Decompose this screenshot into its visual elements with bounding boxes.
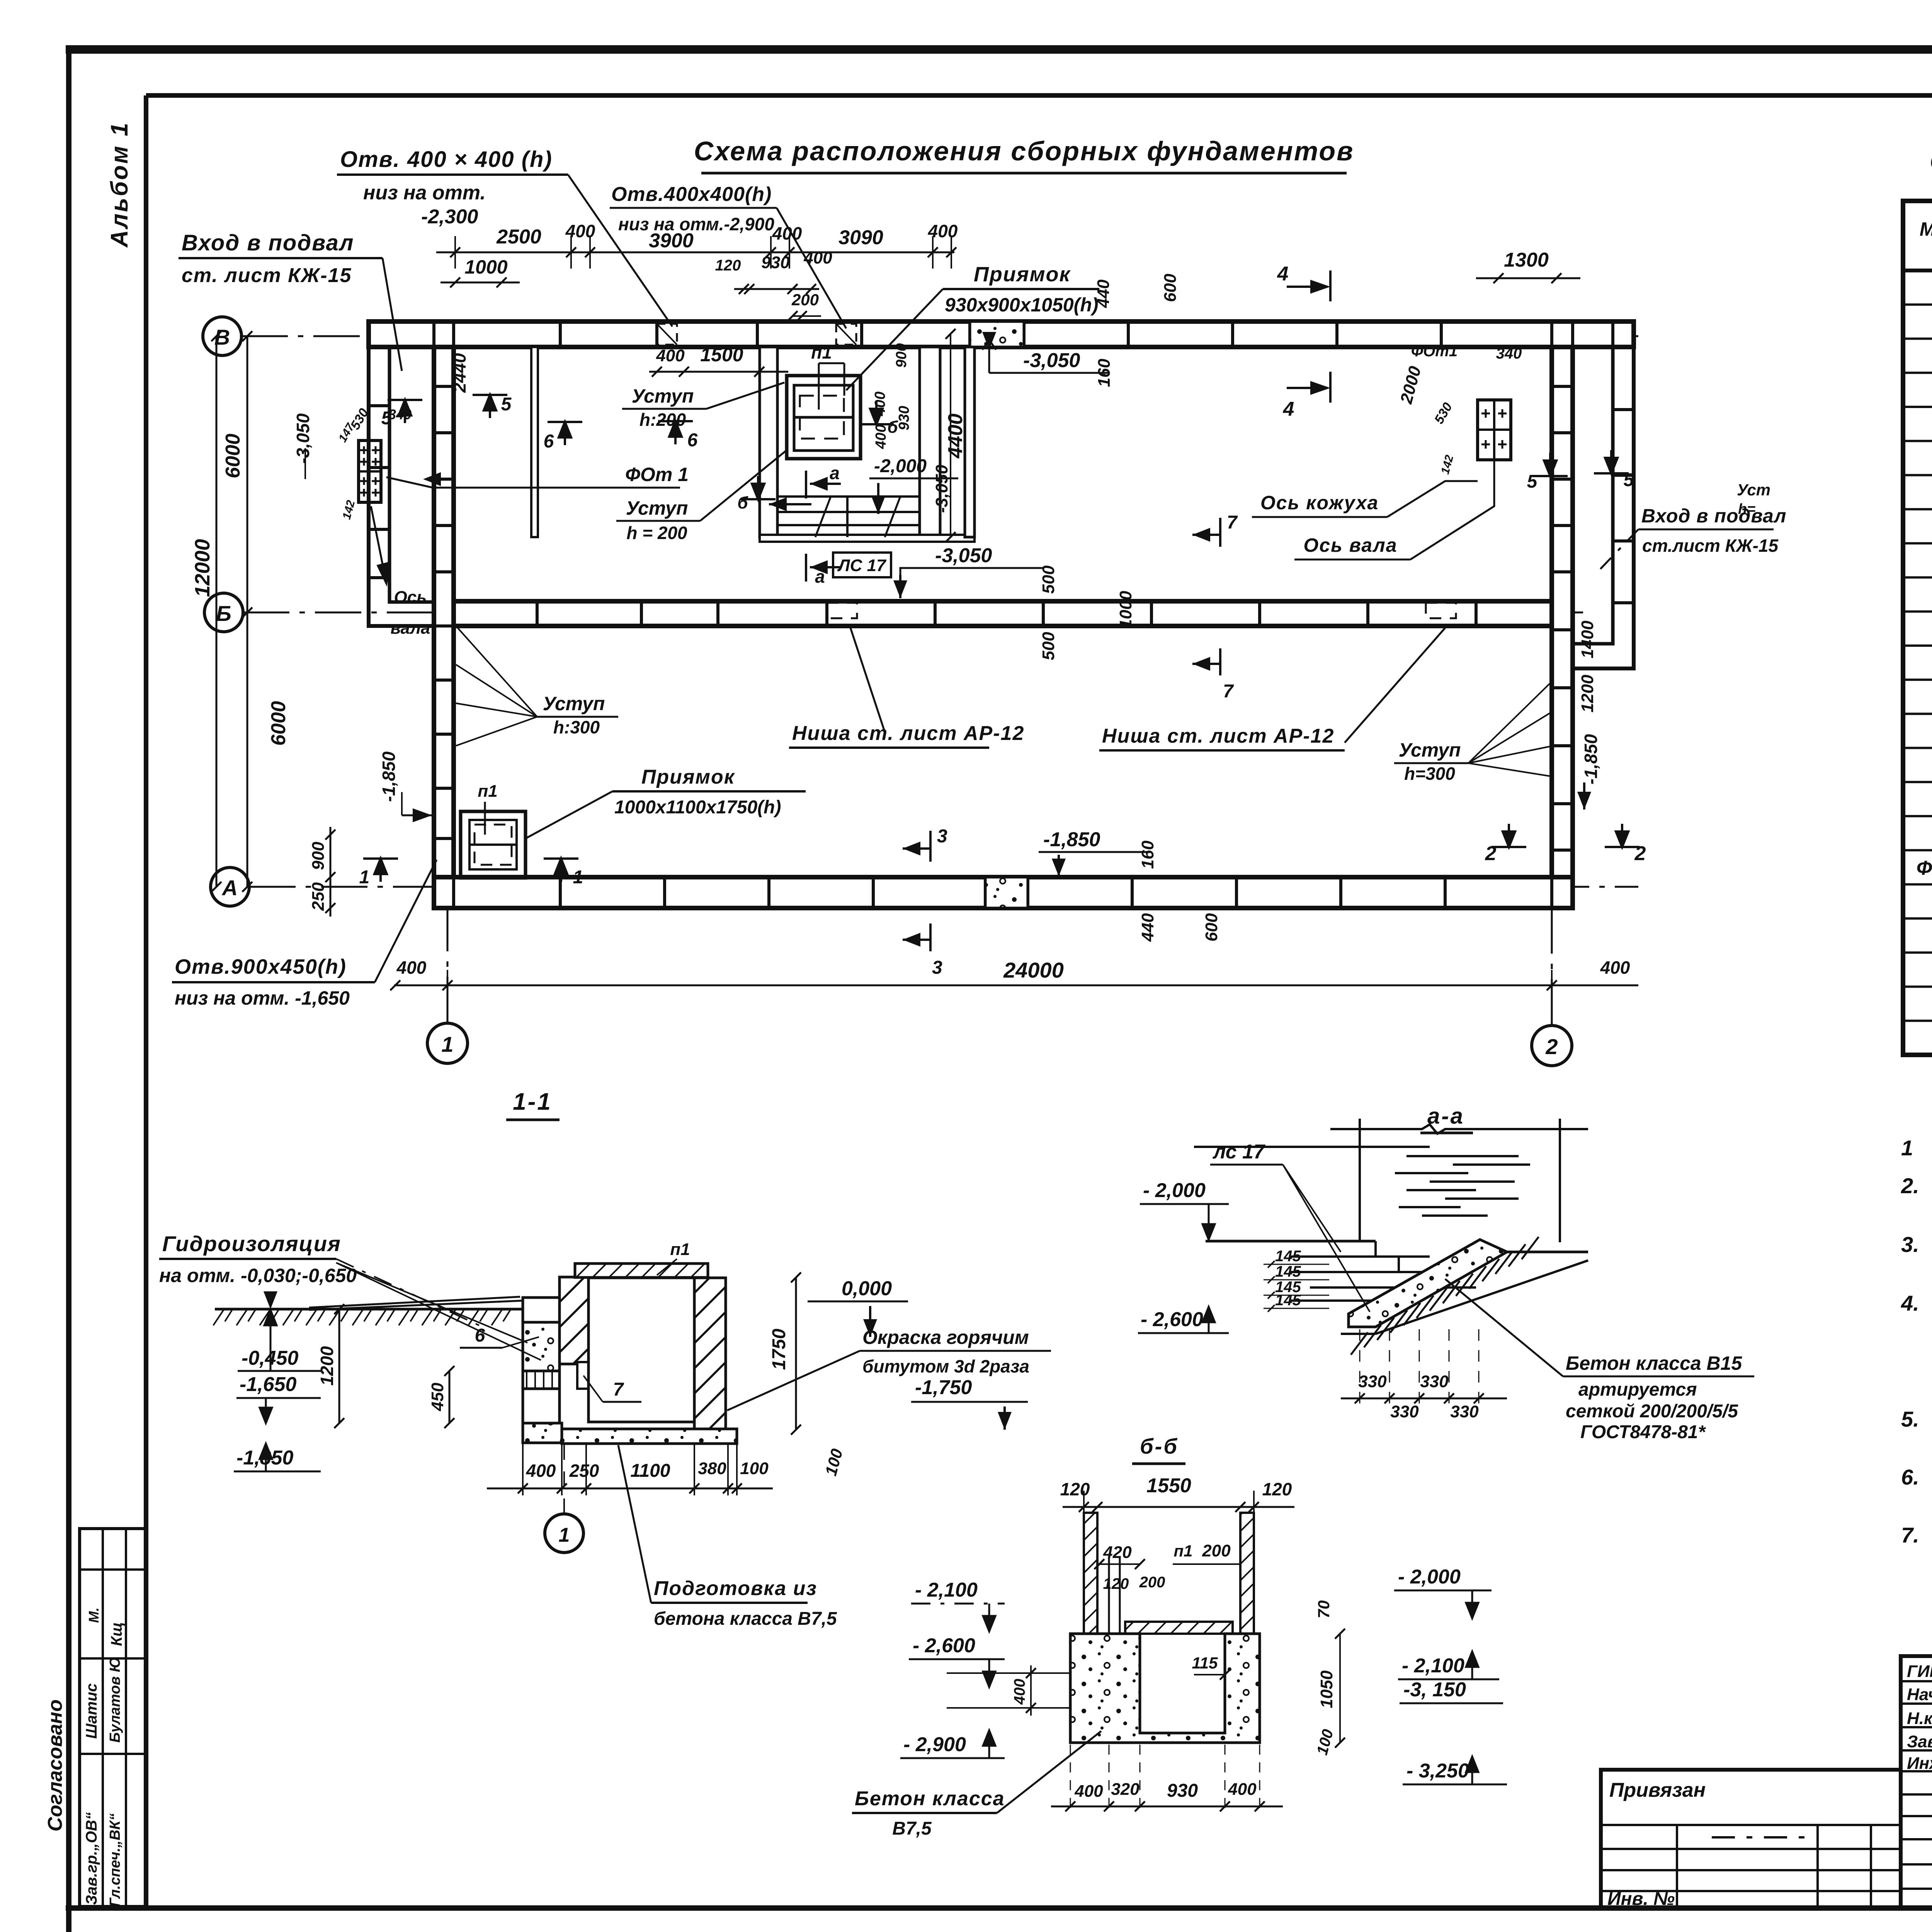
svg-text:420: 420 bbox=[1103, 1543, 1132, 1562]
sheet top edge bbox=[66, 45, 1932, 54]
svg-text:380: 380 bbox=[698, 1459, 726, 1478]
svg-text:п1: п1 bbox=[811, 342, 832, 362]
section 1-1 hatched pit wall right bbox=[694, 1278, 726, 1430]
section b-b levels right bbox=[1314, 1566, 1507, 1784]
svg-text:330: 330 bbox=[1390, 1402, 1419, 1421]
svg-text:сеткой 200/200/5/5: сеткой 200/200/5/5 bbox=[1566, 1401, 1738, 1422]
svg-text:Отв.900х450(h): Отв.900х450(h) bbox=[175, 955, 347, 978]
svg-text:1: 1 bbox=[441, 1032, 453, 1056]
svg-text:120: 120 bbox=[1103, 1575, 1129, 1592]
svg-text:В7,5: В7,5 bbox=[892, 1818, 932, 1839]
svg-text:лс 17: лс 17 bbox=[1212, 1141, 1265, 1163]
svg-text:- 2,600: - 2,600 bbox=[1141, 1308, 1203, 1331]
svg-text:h=: h= bbox=[1738, 501, 1755, 517]
svg-text:0,000: 0,000 bbox=[842, 1277, 892, 1300]
svg-text:- 2,100: - 2,100 bbox=[1402, 1655, 1464, 1677]
svg-text:1750: 1750 bbox=[769, 1328, 789, 1370]
approval stamp texts bbox=[44, 1607, 125, 1907]
svg-text:низ на отт.: низ на отт. bbox=[363, 182, 486, 204]
grid 1 line bbox=[447, 321, 449, 1023]
section a-a title bbox=[1420, 1104, 1473, 1133]
level -1,850 left rotated bbox=[379, 751, 432, 822]
svg-text:1050: 1050 bbox=[1317, 1670, 1336, 1708]
title block signature texts bbox=[1907, 1661, 1932, 1773]
svg-text:- 2,000: - 2,000 bbox=[1143, 1179, 1206, 1202]
section mark 5 pair left bbox=[381, 391, 512, 429]
section mark 6 pair bbox=[544, 417, 698, 452]
stairwell left wall bbox=[760, 347, 777, 537]
svg-text:5: 5 bbox=[1527, 471, 1538, 492]
right exterior wall bbox=[1552, 347, 1573, 877]
section a-a water hatch bbox=[1194, 1147, 1530, 1216]
notes bbox=[1901, 1135, 1932, 1578]
svg-text:Н.контр: Н.контр bbox=[1907, 1709, 1932, 1728]
svg-text:а-а: а-а bbox=[1427, 1104, 1464, 1129]
stairs in plan bbox=[777, 497, 920, 537]
svg-text:на отм. -0,030;-0,650: на отм. -0,030;-0,650 bbox=[159, 1265, 357, 1286]
svg-text:низ на отм.-2,900: низ на отм.-2,900 bbox=[618, 214, 774, 234]
dimension 900 250 left bbox=[309, 827, 335, 917]
section b-b dims 420 p1 200 bbox=[1094, 1541, 1240, 1592]
section 1-1 level -1,650 bbox=[236, 1373, 321, 1423]
svg-text:А: А bbox=[221, 876, 238, 900]
dimension row pit top bbox=[715, 248, 833, 321]
interior wall left room bbox=[531, 347, 538, 537]
svg-text:400: 400 bbox=[1228, 1780, 1257, 1799]
label priyamok top bbox=[846, 263, 1099, 390]
svg-text:330: 330 bbox=[1358, 1372, 1387, 1391]
section a-a level -2,600 bbox=[1138, 1307, 1229, 1333]
rotated dims pit right bbox=[872, 329, 967, 542]
svg-text:250: 250 bbox=[569, 1461, 599, 1481]
svg-text:500: 500 bbox=[1039, 632, 1058, 660]
axis B line bbox=[241, 335, 1638, 337]
svg-text:а: а bbox=[830, 463, 840, 483]
svg-text:Уступ: Уступ bbox=[632, 385, 694, 407]
svg-text:б: б bbox=[887, 418, 898, 437]
svg-text:2500: 2500 bbox=[496, 226, 541, 248]
svg-text:330: 330 bbox=[1420, 1372, 1449, 1391]
svg-text:160: 160 bbox=[1138, 840, 1157, 869]
svg-text:п1: п1 bbox=[1173, 1542, 1192, 1560]
svg-text:930: 930 bbox=[1167, 1781, 1198, 1801]
svg-text:-1,650: -1,650 bbox=[240, 1373, 297, 1396]
svg-text:Ось кожуха: Ось кожуха bbox=[1260, 492, 1379, 514]
section 1-1 label hydroizol bbox=[159, 1231, 541, 1360]
label nisha right bbox=[1099, 628, 1445, 750]
section 1-1 dim 100 right bbox=[821, 1447, 846, 1478]
specification table grid bbox=[1903, 201, 1932, 1055]
left exterior wall bbox=[434, 347, 454, 877]
svg-text:п1: п1 bbox=[478, 782, 497, 801]
section a-a 145 labels bbox=[1264, 1248, 1329, 1312]
svg-text:Инв. №: Инв. № bbox=[1607, 1889, 1675, 1909]
section b-b dim 400 left bbox=[947, 1665, 1070, 1716]
main drawing title bbox=[694, 136, 1354, 173]
label otv 400x400 -2300 bbox=[337, 147, 672, 327]
svg-text:Вход в подвал: Вход в подвал bbox=[1641, 505, 1787, 527]
middle wall axis Bm bbox=[454, 601, 1552, 626]
right entrance porch bbox=[1573, 347, 1634, 668]
svg-text:6000: 6000 bbox=[222, 434, 244, 478]
svg-text:12000: 12000 bbox=[191, 539, 214, 597]
svg-text:930: 930 bbox=[896, 406, 912, 430]
label nisha left bbox=[789, 627, 1024, 748]
svg-text:-3,050: -3,050 bbox=[935, 544, 992, 567]
svg-text:1300: 1300 bbox=[1504, 249, 1549, 271]
svg-text:h:300: h:300 bbox=[553, 717, 600, 737]
dimension 1300 right top bbox=[1476, 249, 1580, 283]
pit P1 bottom left bbox=[461, 782, 526, 878]
section 1-1 label 6 bbox=[460, 1325, 539, 1348]
svg-text:4: 4 bbox=[1283, 398, 1294, 420]
svg-text:24000: 24000 bbox=[1003, 958, 1064, 982]
label os vala left bbox=[371, 506, 430, 638]
svg-text:400: 400 bbox=[656, 346, 685, 365]
section 1-1 label 7 bbox=[583, 1376, 641, 1402]
svg-text:М.: М. bbox=[86, 1607, 102, 1623]
section a-a label LS17 bbox=[1210, 1141, 1370, 1312]
approval stamp table bbox=[80, 1529, 146, 1906]
svg-text:б: б bbox=[737, 493, 748, 512]
grid 2 circle bbox=[1532, 1026, 1572, 1066]
axis Bm line bbox=[243, 612, 1584, 614]
svg-text:200: 200 bbox=[1139, 1574, 1165, 1591]
specification title bbox=[1930, 147, 1932, 175]
svg-text:-1,750: -1,750 bbox=[915, 1376, 972, 1399]
svg-text:3: 3 bbox=[937, 826, 947, 847]
bottom exterior wall bbox=[434, 877, 1573, 908]
section mark b pair bbox=[737, 401, 898, 512]
svg-text:340: 340 bbox=[1496, 345, 1522, 362]
section b-b level -2,600 left bbox=[909, 1634, 1005, 1687]
svg-text:- 2,900: - 2,900 bbox=[903, 1733, 966, 1756]
svg-text:4.: 4. bbox=[1901, 1291, 1919, 1315]
svg-text:Инж.: Инж. bbox=[1907, 1754, 1932, 1773]
svg-text:Приямок: Приямок bbox=[974, 263, 1071, 286]
album label bbox=[106, 121, 133, 248]
svg-text:1000: 1000 bbox=[464, 256, 507, 278]
svg-text:1550: 1550 bbox=[1146, 1475, 1191, 1497]
svg-text:930х900х1050(h): 930х900х1050(h) bbox=[945, 294, 1099, 316]
label otv 400x400 -2900 bbox=[610, 183, 846, 328]
svg-text:Уст: Уст bbox=[1737, 481, 1770, 499]
svg-text:200: 200 bbox=[1202, 1541, 1231, 1560]
svg-text:Кщ: Кщ bbox=[108, 1622, 125, 1646]
svg-text:Б: Б bbox=[216, 601, 231, 626]
label ustup h300 right bbox=[1394, 680, 1553, 784]
svg-text:1: 1 bbox=[573, 867, 583, 888]
svg-text:ЛС 17: ЛС 17 bbox=[837, 556, 887, 575]
svg-text:1200: 1200 bbox=[317, 1346, 337, 1386]
svg-text:- 2,600: - 2,600 bbox=[913, 1634, 975, 1657]
svg-text:Окраска горячим: Окраска горячим bbox=[862, 1327, 1029, 1348]
svg-text:5: 5 bbox=[501, 394, 512, 415]
section a-a stair slab bbox=[1349, 1240, 1588, 1327]
left entrance porch bbox=[369, 347, 434, 626]
svg-text:h:200: h:200 bbox=[639, 410, 686, 430]
svg-text:-1,850: -1,850 bbox=[1581, 734, 1601, 784]
section 1-1 ground line bbox=[213, 1297, 523, 1325]
svg-text:400: 400 bbox=[396, 957, 427, 978]
section 1-1 dim 1200 bbox=[317, 1304, 344, 1428]
svg-text:1000: 1000 bbox=[1116, 591, 1135, 629]
section b-b dim 115 bbox=[1192, 1654, 1230, 1680]
svg-text:-1,850: -1,850 bbox=[379, 751, 399, 802]
section mark 5 pair right bbox=[1527, 450, 1634, 492]
label os kozhuha bbox=[1252, 481, 1478, 517]
svg-text:Спецификация к схеме располо: Спецификация к схеме расположения фундам… bbox=[1930, 147, 1932, 175]
svg-text:100: 100 bbox=[740, 1459, 769, 1478]
stairwell bottom wall bbox=[760, 535, 975, 542]
svg-text:400: 400 bbox=[1074, 1782, 1103, 1801]
section 1-1 pit interior bbox=[588, 1278, 694, 1422]
svg-text:Уступ: Уступ bbox=[626, 497, 688, 519]
pit label p1 bbox=[811, 342, 844, 410]
svg-text:-3,050: -3,050 bbox=[1023, 349, 1080, 372]
level -3,050 stairs bbox=[893, 544, 1043, 598]
stair label LS17 plan bbox=[833, 553, 891, 577]
svg-text:ФОт 1: ФОт 1 bbox=[625, 464, 689, 485]
section a-a walls bbox=[1330, 1119, 1588, 1242]
section mark 2 pair bbox=[1485, 824, 1646, 865]
section 1-1 cover slab P1 bbox=[575, 1240, 708, 1277]
monolith patch top wall bbox=[970, 321, 1024, 347]
svg-text:600: 600 bbox=[1161, 274, 1180, 302]
svg-text:200: 200 bbox=[791, 291, 819, 309]
svg-text:400: 400 bbox=[928, 221, 958, 241]
svg-text:70: 70 bbox=[1315, 1600, 1333, 1619]
rotated dims cluster bottom wall bbox=[1138, 840, 1221, 942]
svg-text:ст.лист КЖ-15: ст.лист КЖ-15 bbox=[1642, 536, 1779, 556]
svg-text:h=300: h=300 bbox=[1404, 764, 1455, 784]
section 1-1 label podgotovka bbox=[618, 1445, 837, 1629]
section 1-1 dim 450 bbox=[428, 1366, 454, 1428]
svg-text:6.: 6. bbox=[1901, 1465, 1919, 1489]
svg-text:6000: 6000 bbox=[267, 701, 290, 746]
svg-text:ГОСТ8478-81*: ГОСТ8478-81* bbox=[1580, 1422, 1706, 1442]
section 1-1 node circle 1 bbox=[545, 1444, 583, 1553]
section a-a bottom dims bbox=[1341, 1329, 1507, 1421]
section a-a floor and steps bbox=[1206, 1241, 1476, 1301]
svg-text:120: 120 bbox=[715, 257, 741, 274]
svg-text:1000х1100х1750(h): 1000х1100х1750(h) bbox=[614, 797, 781, 818]
svg-text:7: 7 bbox=[613, 1379, 624, 1400]
svg-text:145: 145 bbox=[1275, 1263, 1301, 1280]
svg-text:400: 400 bbox=[565, 221, 595, 241]
svg-text:Гидроизоляция: Гидроизоляция bbox=[162, 1231, 341, 1256]
svg-text:6: 6 bbox=[544, 431, 554, 452]
section b-b pipe bbox=[1109, 1557, 1120, 1634]
axis A line bbox=[249, 886, 1638, 888]
section a-a level -2,000 bbox=[1140, 1179, 1229, 1240]
svg-text:900: 900 bbox=[893, 343, 910, 367]
title block attachment table bbox=[1601, 1770, 1901, 1908]
svg-text:-2,000: -2,000 bbox=[874, 456, 927, 476]
svg-text:115: 115 bbox=[1192, 1654, 1218, 1672]
svg-text:1400: 1400 bbox=[1578, 621, 1597, 658]
section 1-1 level -1,750 bbox=[911, 1376, 1028, 1430]
svg-text:-1,850: -1,850 bbox=[1043, 828, 1100, 851]
svg-text:-3,050: -3,050 bbox=[932, 464, 951, 513]
svg-text:Булатов Ю: Булатов Ю bbox=[107, 1657, 123, 1743]
niche right bbox=[1426, 603, 1456, 618]
rotated dim -3,050 stairwell bbox=[932, 464, 951, 513]
fan foundation FOt1 right bbox=[1478, 400, 1511, 460]
svg-text:2: 2 bbox=[1485, 842, 1497, 865]
label os vala right bbox=[1294, 461, 1494, 560]
axis B circle bbox=[203, 317, 241, 355]
svg-text:1: 1 bbox=[1901, 1136, 1913, 1160]
section b-b level -2,900 left bbox=[900, 1730, 1005, 1758]
svg-text:6: 6 bbox=[475, 1325, 485, 1346]
section mark a pair bbox=[806, 463, 841, 587]
svg-text:600: 600 bbox=[1202, 913, 1221, 942]
svg-text:бетона класса В7,5: бетона класса В7,5 bbox=[654, 1609, 837, 1629]
svg-text:400: 400 bbox=[1011, 1679, 1028, 1705]
svg-text:- 3,250: - 3,250 bbox=[1406, 1760, 1469, 1782]
svg-text:7: 7 bbox=[1227, 512, 1238, 533]
section 1-1 level -1,850 bbox=[234, 1444, 321, 1471]
grid 2 line bbox=[1551, 321, 1553, 1026]
stairwell right wall bbox=[920, 347, 940, 537]
svg-text:120: 120 bbox=[1060, 1479, 1090, 1499]
svg-text:3090: 3090 bbox=[838, 226, 883, 249]
svg-text:h = 200: h = 200 bbox=[626, 523, 687, 543]
svg-text:Вход в подвал: Вход в подвал bbox=[182, 230, 354, 255]
section b-b top dims bbox=[1060, 1475, 1294, 1515]
rotated dims 500 1000 500 middle bbox=[1039, 565, 1135, 660]
svg-text:400: 400 bbox=[1600, 957, 1630, 978]
section 1-1 hatched pit wall left bbox=[560, 1277, 588, 1389]
svg-text:ГИП: ГИП bbox=[1907, 1662, 1932, 1681]
svg-text:1500: 1500 bbox=[700, 344, 743, 366]
label vhod v podval right bbox=[1594, 505, 1787, 576]
svg-text:Зав.гр.: Зав.гр. bbox=[1907, 1732, 1932, 1751]
svg-text:930: 930 bbox=[761, 253, 790, 272]
svg-text:Подготовка из: Подготовка из bbox=[654, 1577, 817, 1600]
rotated dims right side bbox=[1577, 621, 1601, 810]
svg-text:Согласовано: Согласовано bbox=[44, 1699, 66, 1832]
svg-text:1200: 1200 bbox=[1578, 675, 1597, 713]
title block signature table bbox=[1901, 1656, 1932, 1908]
section 1-1 bottom dims bbox=[487, 1444, 773, 1495]
attachment table texts bbox=[1607, 1779, 1706, 1909]
svg-text:-3,050: -3,050 bbox=[293, 413, 313, 464]
svg-text:а: а bbox=[815, 566, 825, 587]
rotated dim -3,050 left wall bbox=[293, 413, 441, 486]
svg-text:- 2,100: - 2,100 bbox=[915, 1579, 978, 1601]
svg-text:Приямок: Приямок bbox=[641, 766, 735, 788]
svg-text:2440: 2440 bbox=[449, 353, 469, 393]
svg-text:120: 120 bbox=[1262, 1479, 1292, 1499]
section mark 3 pair bbox=[903, 826, 947, 978]
level -1,850 bottom bbox=[1039, 828, 1151, 876]
section mark 7 pair bbox=[1192, 512, 1238, 702]
svg-text:ФОт1: ФОт1 bbox=[1411, 343, 1458, 360]
svg-text:Шатис: Шатис bbox=[83, 1683, 100, 1739]
rotated dims fan left bbox=[336, 353, 469, 521]
svg-text:Ось: Ось bbox=[394, 588, 427, 607]
svg-text:Уступ: Уступ bbox=[543, 693, 605, 714]
svg-text:3: 3 bbox=[932, 957, 942, 978]
section b-b level -2,100 left bbox=[911, 1579, 1005, 1631]
svg-text:250: 250 bbox=[309, 882, 328, 911]
opening otv400 first bbox=[657, 324, 677, 345]
svg-text:1: 1 bbox=[559, 1524, 570, 1546]
section 1-1 label okraska bbox=[727, 1327, 1051, 1410]
dimension row top first bbox=[436, 221, 958, 269]
grid 1 circle bbox=[427, 1023, 468, 1063]
svg-text:- 2,000: - 2,000 bbox=[1398, 1566, 1461, 1588]
svg-text:320: 320 bbox=[1111, 1780, 1139, 1799]
section a-a label beton B15 bbox=[1445, 1279, 1754, 1442]
section b-b brick walls bbox=[1084, 1513, 1254, 1634]
svg-text:500: 500 bbox=[1039, 565, 1058, 594]
svg-text:450: 450 bbox=[428, 1383, 447, 1412]
sheet left edge bbox=[66, 49, 71, 1932]
interior boundary right of stairwell bbox=[965, 347, 975, 537]
svg-text:Отв. 400 × 400 (h): Отв. 400 × 400 (h) bbox=[340, 147, 553, 172]
rotated dims fan right bbox=[1396, 343, 1522, 476]
label ustup right edge bbox=[1737, 481, 1770, 517]
label ustup h300 left bbox=[456, 626, 618, 746]
svg-text:вала: вала bbox=[391, 619, 430, 638]
dimension 400 1500 mid bbox=[649, 344, 788, 377]
section a-a ground hatch bbox=[1341, 1237, 1588, 1355]
svg-text:1-1: 1-1 bbox=[513, 1088, 552, 1115]
dimension 24000 bottom bbox=[390, 957, 1638, 1001]
section b-b concrete body bbox=[1070, 1634, 1260, 1743]
section 1-1 level -0,450 bbox=[238, 1291, 321, 1371]
label priyamok bottom bbox=[526, 766, 806, 838]
svg-text:145: 145 bbox=[1275, 1292, 1301, 1309]
section b-b bottom dims bbox=[1051, 1745, 1283, 1814]
svg-text:ст. лист КЖ-15: ст. лист КЖ-15 bbox=[182, 264, 352, 287]
svg-text:2: 2 bbox=[1634, 842, 1646, 865]
svg-text:Гл.спеч.„ВК“: Гл.спеч.„ВК“ bbox=[107, 1813, 123, 1907]
section mark 4 pair bbox=[1277, 263, 1330, 420]
svg-text:145: 145 bbox=[1275, 1248, 1301, 1265]
central pit priyamok bbox=[787, 376, 861, 459]
section b-b label beton bbox=[852, 1731, 1101, 1839]
svg-text:5.: 5. bbox=[1901, 1407, 1919, 1431]
svg-text:Отв.400х400(h): Отв.400х400(h) bbox=[611, 183, 772, 206]
fan foundation FOt1 left bbox=[359, 440, 381, 502]
section b-b title bbox=[1132, 1434, 1185, 1464]
label FOt1 ustup h200 bbox=[386, 450, 787, 543]
svg-text:Бетон класса В15: Бетон класса В15 bbox=[1566, 1352, 1742, 1374]
svg-text:3.: 3. bbox=[1901, 1232, 1919, 1257]
svg-text:Ниша ст. лист АР-12: Ниша ст. лист АР-12 bbox=[1102, 725, 1334, 747]
dimension 6000 6000 left bbox=[222, 331, 290, 892]
svg-text:Нач.отд: Нач.отд bbox=[1907, 1685, 1932, 1704]
svg-text:5: 5 bbox=[381, 408, 392, 429]
niche left bbox=[827, 603, 857, 618]
svg-text:артируется: артируется bbox=[1578, 1379, 1697, 1400]
svg-text:битутом 3d 2раза: битутом 3d 2раза bbox=[862, 1356, 1029, 1376]
svg-text:400: 400 bbox=[526, 1461, 556, 1481]
svg-text:6: 6 bbox=[687, 430, 698, 451]
svg-text:900: 900 bbox=[309, 842, 328, 870]
svg-text:Уступ: Уступ bbox=[1399, 739, 1461, 761]
label vhod v podval left bbox=[179, 230, 402, 371]
svg-text:-2,300: -2,300 bbox=[421, 206, 478, 228]
label ustup h200 mid bbox=[622, 383, 784, 430]
svg-text:Ось вала: Ось вала bbox=[1303, 534, 1397, 556]
rotated dims cluster top right wall bbox=[1094, 274, 1180, 387]
dimension 12000 left bbox=[191, 331, 221, 892]
